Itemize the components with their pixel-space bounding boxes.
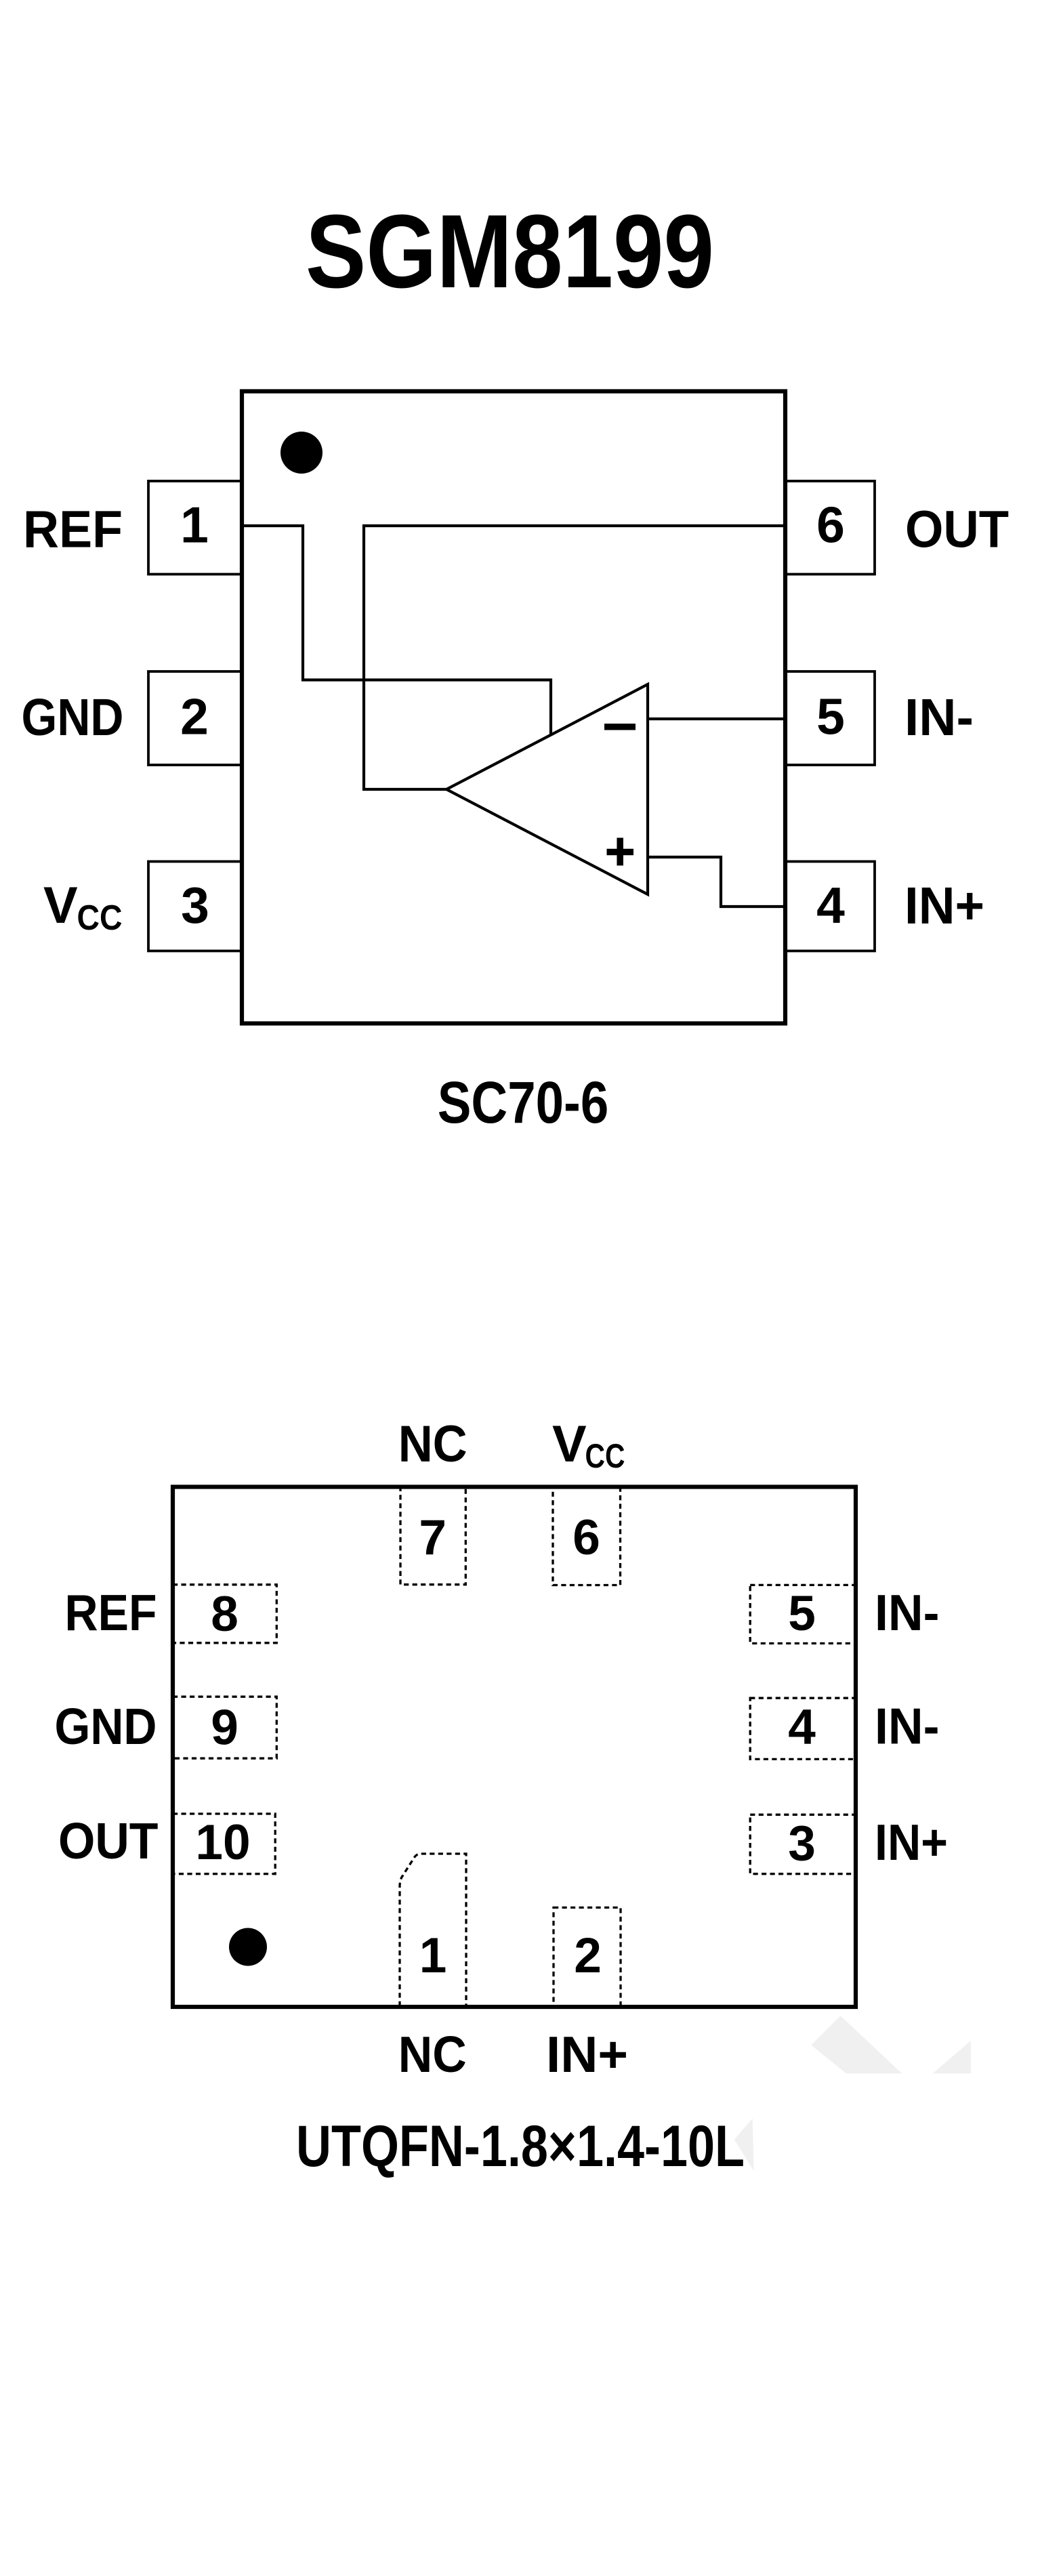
- svg-text:2: 2: [180, 688, 209, 745]
- pin 5 box (SC70-6): [785, 671, 875, 765]
- watermark fragment B: [933, 2041, 971, 2073]
- pin 6 box (UTQFN): [553, 1487, 621, 1585]
- pin 3 box (UTQFN): [750, 1814, 856, 1873]
- svg-text:V: V: [43, 877, 78, 934]
- pin 8 box (UTQFN): [173, 1585, 276, 1643]
- pin 9 box (UTQFN): [173, 1697, 276, 1758]
- svg-text:IN+: IN+: [904, 877, 984, 935]
- pin 1 box (SC70-6): [148, 481, 242, 575]
- svg-text:2: 2: [574, 1928, 602, 1983]
- svg-text:IN-: IN-: [904, 688, 974, 747]
- svg-text:SC70-6: SC70-6: [438, 1070, 609, 1136]
- svg-text:6: 6: [816, 497, 845, 554]
- wire pin5 to inverting input: [648, 718, 785, 720]
- svg-text:REF: REF: [65, 1584, 157, 1641]
- pin 4 box (UTQFN): [750, 1698, 856, 1759]
- wire comparator output to pin6: [364, 526, 785, 789]
- svg-text:9: 9: [211, 1701, 238, 1756]
- svg-text:OUT: OUT: [58, 1812, 159, 1869]
- svg-text:6: 6: [573, 1510, 600, 1565]
- watermark fragment C: [734, 2119, 754, 2172]
- svg-text:CC: CC: [77, 898, 123, 938]
- svg-text:IN-: IN-: [875, 1698, 940, 1755]
- svg-text:8: 8: [211, 1587, 238, 1642]
- svg-text:NC: NC: [398, 1415, 467, 1473]
- pin 10 box (UTQFN): [173, 1814, 275, 1874]
- watermark fragment A: [811, 2016, 902, 2073]
- pin 1 orientation dot (SC70-6): [280, 432, 323, 474]
- svg-text:NC: NC: [398, 2026, 467, 2083]
- svg-text:10: 10: [195, 1815, 250, 1870]
- svg-text:1: 1: [180, 497, 209, 554]
- svg-text:SGM8199: SGM8199: [306, 193, 714, 310]
- pin 2 box (SC70-6): [148, 671, 242, 765]
- wire pin4 to non-inverting input: [648, 857, 785, 907]
- inverting input marker (minus): [604, 724, 636, 730]
- svg-text:V: V: [552, 1415, 587, 1473]
- svg-text:GND: GND: [55, 1698, 157, 1755]
- svg-text:GND: GND: [22, 688, 124, 747]
- pin 1 orientation dot (UTQFN): [229, 1928, 267, 1966]
- pin 1 box chamfered (UTQFN): [400, 1854, 466, 2006]
- svg-text:3: 3: [788, 1816, 816, 1871]
- svg-text:IN+: IN+: [875, 1814, 948, 1871]
- pin 6 box (SC70-6): [785, 481, 875, 575]
- non-inverting input marker (plus): [607, 838, 634, 866]
- svg-text:UTQFN-1.8×1.4-10L: UTQFN-1.8×1.4-10L: [296, 2114, 745, 2179]
- svg-text:3: 3: [181, 877, 209, 934]
- svg-text:IN-: IN-: [875, 1584, 940, 1641]
- svg-text:7: 7: [419, 1510, 446, 1565]
- comparator U1 triangle: [446, 684, 648, 894]
- svg-text:OUT: OUT: [905, 501, 1009, 559]
- pin 3 box (SC70-6): [148, 862, 242, 951]
- pin 4 box (SC70-6): [785, 862, 875, 951]
- svg-text:4: 4: [788, 1700, 816, 1755]
- svg-text:1: 1: [419, 1928, 447, 1983]
- pin 2 box (UTQFN): [554, 1907, 621, 2006]
- pin 5 box (UTQFN): [750, 1585, 856, 1643]
- pin 7 box (UTQFN): [400, 1487, 465, 1585]
- svg-text:5: 5: [816, 688, 845, 745]
- svg-text:5: 5: [788, 1586, 816, 1641]
- svg-text:REF: REF: [23, 501, 123, 559]
- package U1 body (SC70-6): [242, 392, 785, 1024]
- svg-text:4: 4: [816, 877, 845, 934]
- package U2 body (UTQFN): [173, 1487, 856, 2008]
- wire REF pin1 to comparator top edge: [242, 526, 551, 735]
- svg-text:CC: CC: [585, 1437, 625, 1475]
- svg-text:IN+: IN+: [546, 2026, 628, 2083]
